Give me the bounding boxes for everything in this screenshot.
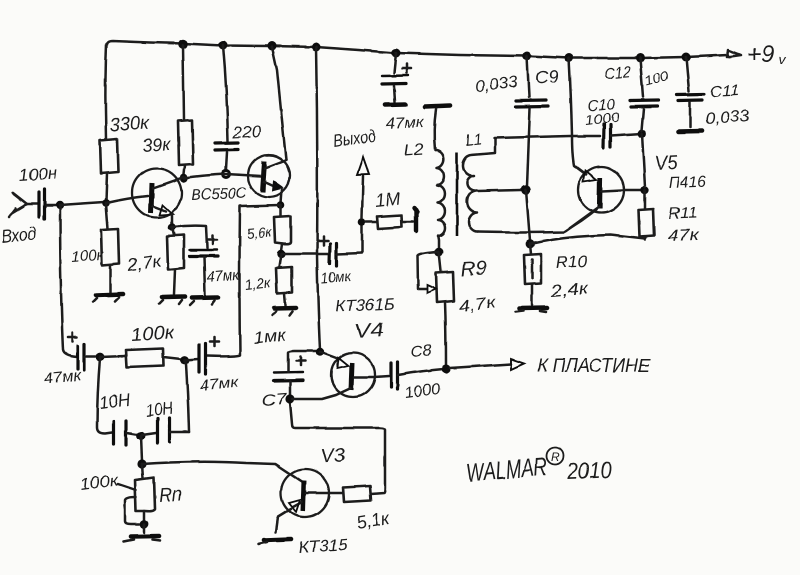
wire 1,2k to ground — [284, 293, 285, 305]
svg-text:100н: 100н — [18, 163, 59, 185]
wire collector T1 to base T2 — [184, 174, 261, 178]
svg-text:Rn: Rn — [158, 484, 182, 507]
wire L2 node to R9 — [439, 252, 441, 271]
wire R9 to C8 node — [445, 303, 446, 365]
wire node to 1M — [366, 221, 377, 224]
capacitor 47mk feedback left — [68, 333, 95, 371]
svg-text:П416: П416 — [669, 174, 707, 192]
wire rail to V5 emitter — [569, 58, 572, 135]
capacitor C8 1000 — [391, 362, 443, 389]
wire base node to R11 — [644, 190, 647, 209]
resistor 5,1k — [343, 486, 371, 502]
wire 100k to ground — [109, 266, 112, 293]
svg-text:1мк: 1мк — [252, 326, 288, 348]
svg-text:1,2к: 1,2к — [244, 275, 273, 294]
resistor 39k — [178, 120, 193, 165]
node Rn bottom junction — [140, 520, 149, 529]
potentiometer Rn 100k — [135, 478, 155, 512]
transistor V4 KT361 — [292, 352, 389, 399]
wire R9 wiper — [418, 252, 440, 289]
svg-text:39к: 39к — [142, 134, 173, 156]
svg-text:10мк: 10мк — [320, 269, 352, 287]
wire emitter T2 to 5,6k — [280, 205, 283, 216]
svg-text:R: R — [551, 450, 560, 464]
wire L1 bottom to V5 collector — [478, 210, 596, 233]
wire antenna arrow — [450, 364, 511, 368]
wire L1 tap to C9 node — [477, 190, 521, 191]
node phase net left junction — [96, 353, 105, 362]
svg-text:10Н: 10Н — [144, 398, 175, 421]
node C7 bottom junction — [285, 394, 294, 403]
wire 1M to plate terminal — [402, 221, 414, 224]
chassis bar under C11 — [679, 129, 702, 134]
wire rail to cap 220 — [223, 45, 228, 141]
ground under R10 — [515, 308, 547, 312]
wire rail left drop to 330k — [105, 44, 106, 139]
ground under 1,2k — [272, 308, 296, 316]
wire bar to L2 — [434, 109, 436, 150]
resistor 100k horizontal — [126, 349, 164, 368]
capacitor 47mk (emitter bypass) — [190, 236, 218, 295]
svg-text:L2: L2 — [403, 141, 424, 160]
inductor L1 — [463, 139, 495, 232]
wire 330k to base node — [106, 174, 107, 202]
capacitor 220 — [215, 143, 238, 170]
node C8 right junction — [441, 364, 450, 373]
wire label pointer — [118, 484, 136, 490]
svg-text:С9: С9 — [535, 66, 559, 88]
svg-text:L1: L1 — [465, 130, 483, 150]
transformer core — [456, 152, 459, 236]
resistor 5,6k — [274, 216, 291, 244]
wire up to vyhod arrow — [362, 176, 363, 218]
wire tap node down — [526, 190, 530, 241]
chassis bar under 47mk — [385, 102, 406, 107]
svg-text:5,6к: 5,6к — [246, 225, 273, 243]
resistor R10 — [524, 254, 541, 284]
wire 10H node down — [141, 436, 142, 461]
svg-text:330к: 330к — [109, 113, 150, 136]
node L2 bottom junction — [435, 248, 444, 257]
ground under Rn — [124, 537, 160, 543]
wire rail to C12 — [640, 58, 643, 97]
resistor 1M — [377, 215, 402, 229]
node L1 tap junction — [521, 185, 531, 195]
resistor 2,7k — [167, 235, 184, 270]
svg-text:+9: +9 — [747, 41, 774, 68]
svg-text:0,033: 0,033 — [705, 108, 750, 128]
node V4 emitter junction — [316, 348, 324, 356]
svg-text:V5: V5 — [654, 152, 679, 175]
capacitor 10mk — [319, 226, 362, 266]
svg-text:10Н: 10Н — [98, 389, 132, 413]
node input junction — [56, 201, 64, 209]
ground under 2,7k — [159, 297, 185, 305]
node 1M terminal bar — [414, 208, 417, 231]
wire 5,6k to node — [281, 244, 282, 251]
wire left node down to 10H A — [97, 358, 112, 434]
transistor V5 P416 — [566, 136, 641, 231]
wire emitter node to cap 47mk — [172, 226, 207, 248]
wire node to Rn — [142, 464, 143, 478]
wire rail to C9 — [527, 56, 529, 97]
wire C10 node down to base node — [642, 134, 645, 187]
capacitor 47mk feedback right — [199, 338, 219, 375]
wire collector T2 to rail — [272, 47, 286, 160]
svg-text:v: v — [779, 51, 787, 67]
node collector T1 — [180, 174, 188, 182]
wire input to base — [60, 202, 104, 205]
ground under 100k — [93, 294, 123, 302]
capacitor 10H B — [142, 418, 189, 443]
node V5 base junction — [641, 186, 649, 194]
svg-text:47мк: 47мк — [385, 114, 425, 133]
node phase net right junction — [181, 356, 190, 365]
capacitor C11 0,033 — [677, 94, 704, 127]
svg-text:BC550C: BC550C — [191, 185, 248, 204]
capacitor 47mk top electrolytic — [382, 64, 411, 102]
capacitor C7 1mk — [274, 351, 316, 396]
transistor V3 KT315 — [276, 469, 343, 532]
svg-text:С7: С7 — [261, 390, 288, 410]
wire top supply rail — [107, 41, 728, 58]
wire 39k to collector node — [184, 165, 185, 174]
wire node to 100k — [100, 356, 126, 357]
svg-text:2,4к: 2,4к — [548, 279, 590, 301]
node R10 top junction — [526, 240, 535, 249]
node vyhod arrow — [357, 157, 369, 175]
resistor 100k left — [101, 229, 119, 266]
resistor R 330k — [100, 139, 118, 174]
svg-text:100к: 100к — [130, 323, 175, 346]
ground under 47mk — [190, 297, 218, 305]
svg-text:V3: V3 — [320, 444, 346, 468]
node vyhod junction — [358, 218, 366, 226]
svg-text:С12: С12 — [604, 64, 631, 83]
wire rail drop to V4 emitter (long vertical) — [316, 47, 320, 350]
wire node to 47mk right — [185, 359, 198, 360]
node 220 junction (ring) — [221, 169, 231, 179]
node output divider — [277, 250, 285, 258]
node emitter T2 — [277, 201, 285, 209]
wire input node down to 47mk left — [60, 206, 77, 357]
wire emitter node left and down to 47mk right — [207, 205, 281, 356]
svg-text:КТ361Б: КТ361Б — [335, 295, 395, 316]
svg-text:С11: С11 — [709, 82, 740, 101]
wire rail to 39k — [183, 45, 184, 120]
resistor R11 — [639, 209, 654, 237]
wire Rn wiper — [125, 497, 139, 524]
capacitor 100n input — [39, 189, 57, 219]
wire node to V3 base (long) — [142, 462, 302, 482]
svg-text:С8: С8 — [410, 342, 433, 361]
node +9v arrow — [727, 50, 741, 57]
capacitor C9 0,033 — [516, 100, 548, 186]
transistor T2 BC550C — [248, 155, 290, 203]
wire node to R10 — [530, 244, 531, 254]
svg-text:220: 220 — [231, 124, 261, 143]
resistor 1,2k — [276, 267, 292, 293]
svg-text:V4: V4 — [354, 319, 384, 343]
wire rail to 47mk top — [394, 53, 396, 73]
capacitor C10 1000 — [604, 124, 643, 148]
svg-text:1М: 1М — [374, 188, 401, 211]
wire 2,7k to ground — [174, 270, 175, 295]
transistor T1 BC550C — [106, 169, 184, 226]
svg-text:Вход: Вход — [0, 223, 37, 247]
svg-text:100к: 100к — [71, 247, 105, 266]
wire output node to 10mk — [281, 253, 329, 256]
svg-text:R11: R11 — [668, 205, 699, 223]
svg-text:R10: R10 — [555, 252, 589, 272]
wire Rn bottom — [143, 511, 146, 521]
node rail junction dots — [178, 39, 690, 62]
wire R11 bottom — [645, 238, 646, 240]
svg-text:47мк: 47мк — [206, 266, 241, 286]
wire 10H B up to right node — [185, 360, 189, 432]
node Rn top junction — [137, 459, 146, 468]
wire emitter to 2.7k — [172, 227, 174, 235]
resistor R9 trimmer — [436, 272, 454, 303]
wire base node down — [106, 203, 108, 229]
svg-text:47к: 47к — [668, 227, 701, 245]
wire node to ground — [143, 524, 146, 533]
node C10 right junction — [638, 130, 647, 139]
svg-text:КТ315: КТ315 — [298, 536, 349, 557]
capacitor C12 100 — [630, 100, 658, 131]
svg-text:R9: R9 — [460, 257, 487, 281]
capacitor 10H A — [114, 421, 140, 445]
wire L1 top line to C10 — [494, 136, 600, 138]
node between 10H caps — [137, 432, 146, 441]
wire R10 to ground — [531, 284, 534, 305]
wire 100k to right node — [164, 357, 182, 359]
inductor L2 — [435, 150, 446, 249]
node input terminal — [9, 193, 38, 217]
node base T1 — [102, 199, 110, 207]
wire node to 1,2k — [279, 254, 281, 267]
node emitter T1 — [168, 223, 176, 231]
svg-text:2010: 2010 — [565, 456, 612, 484]
chassis bar above L2 — [425, 106, 450, 107]
wire R10 node to R11 bottom — [530, 235, 645, 244]
svg-text:К ПЛАСТИНЕ: К ПЛАСТИНЕ — [537, 356, 650, 377]
svg-text:4,7к: 4,7к — [457, 293, 497, 316]
wire 5,1k up and left to V4 collector node — [290, 402, 385, 494]
wire rail to C11 — [686, 57, 689, 91]
ground under V3 — [258, 539, 291, 544]
